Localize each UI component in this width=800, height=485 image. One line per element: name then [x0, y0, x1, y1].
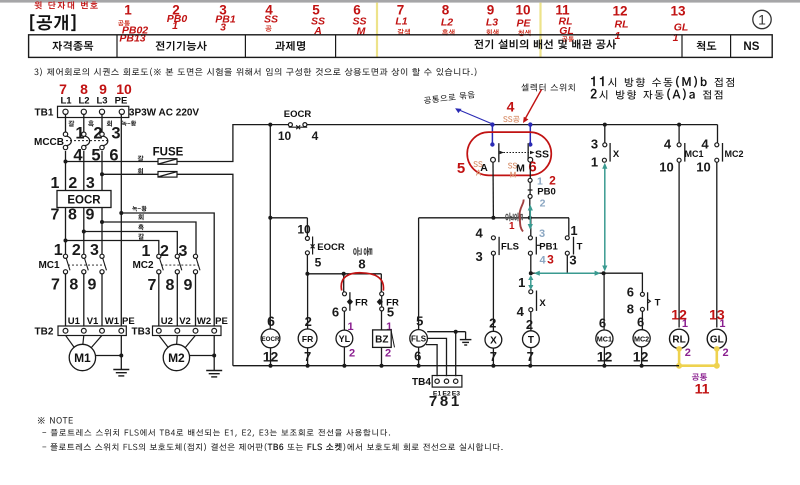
svg-text:2: 2 [72, 242, 81, 259]
wire SS-A to rung [492, 162, 494, 218]
buzzer BZ [373, 330, 395, 348]
red numbers 7 8 9 10 above TB1 [59, 81, 132, 97]
svg-text:2: 2 [540, 198, 546, 210]
svg-text:3: 3 [179, 243, 188, 260]
svg-text:M: M [357, 26, 366, 38]
svg-text:MC2: MC2 [634, 334, 649, 343]
table cell 전기 설비의 배선 및 배관 공사 [474, 39, 616, 49]
svg-text:8: 8 [68, 207, 77, 224]
svg-text:1: 1 [509, 221, 515, 232]
svg-text:9: 9 [88, 277, 97, 294]
wire color labels under TB1 [68, 120, 136, 126]
relay contact X aux (3/1) top right [602, 143, 619, 162]
svg-text:1: 1 [451, 393, 459, 410]
svg-text:13: 13 [670, 4, 686, 19]
svg-text:V1: V1 [87, 316, 99, 327]
handwritten 7 8 9 below EOCR [51, 207, 95, 224]
wire W phase EOCR to MC1 with branch node [101, 208, 103, 255]
svg-text:5: 5 [457, 160, 465, 177]
svg-text:TB3: TB3 [132, 327, 151, 338]
svg-text:PE: PE [516, 18, 531, 30]
fuse F2 [102, 168, 177, 177]
selector switch SS levers and contacts [491, 143, 549, 162]
svg-text:9: 9 [184, 277, 193, 294]
relay coil MC2 [633, 330, 650, 347]
wire rung corner to T contact [568, 218, 570, 236]
svg-text:4: 4 [517, 304, 525, 319]
contact MC1 aux (4/10) [677, 143, 703, 162]
svg-text:MC2: MC2 [724, 149, 743, 159]
svg-text:L3: L3 [486, 17, 498, 29]
svg-text:4: 4 [475, 226, 483, 241]
svg-text:1: 1 [673, 32, 679, 44]
wire V phase EOCR to MC1 with branch node [83, 208, 85, 255]
svg-text:W2: W2 [197, 316, 211, 327]
wire L3 MCCB to EOCR with fuse branch node [101, 151, 103, 191]
svg-text:2: 2 [685, 347, 691, 359]
node top rail left [268, 123, 272, 127]
svg-text:7: 7 [429, 393, 437, 410]
red terminal column number 8 [441, 3, 455, 36]
red terminal column number 3 [215, 3, 236, 34]
timer coil T [523, 331, 540, 348]
svg-text:1: 1 [75, 125, 84, 143]
teal annotation wire X aux down [602, 163, 607, 272]
wire rung to FLS coil branch [418, 218, 420, 330]
wire EOCR coil to rail [270, 348, 272, 366]
svg-text:2: 2 [93, 125, 102, 143]
wire GL to rail yellow [715, 348, 718, 365]
svg-text:MCCB: MCCB [34, 137, 64, 148]
note line 1 [42, 429, 390, 437]
svg-text:M2: M2 [168, 351, 185, 365]
svg-text:PB0: PB0 [537, 187, 555, 198]
svg-text:10: 10 [659, 160, 673, 175]
relay coil X [485, 331, 502, 348]
svg-text:3: 3 [86, 175, 95, 192]
wires MC2 to TB3 [159, 274, 196, 326]
label brown wire [138, 234, 144, 240]
label green-yellow wire [132, 206, 147, 211]
wire rung3 branch to T contact 6/8 [604, 273, 642, 292]
handwritten 1 2 3 above EOCR [51, 175, 95, 192]
svg-text:8: 8 [69, 277, 78, 294]
wire L2 TB1 to MCCB [83, 114, 85, 131]
lamp YL [336, 330, 353, 347]
wire fuse1 to control rail top [177, 125, 270, 162]
svg-text:TB4: TB4 [412, 377, 431, 388]
lamp GL [707, 329, 726, 348]
svg-text:TB1: TB1 [35, 108, 54, 119]
svg-text:3: 3 [539, 228, 545, 240]
wire FLS coil to rail [418, 347, 420, 366]
svg-text:4: 4 [312, 129, 319, 143]
node X aux on top rail [603, 123, 607, 127]
handwritten numbers 4 5 6 on MCCB [73, 147, 118, 165]
flicker contact FR-a for YL [342, 292, 368, 311]
svg-text:TB2: TB2 [35, 327, 54, 338]
svg-text:1: 1 [537, 176, 543, 188]
wire rail to X aux [604, 125, 606, 143]
handwritten 7 8 9 below MC2 [148, 277, 193, 294]
svg-text:1: 1 [682, 318, 688, 330]
svg-text:10: 10 [278, 129, 292, 143]
wire rung3 to MC1 coil [603, 273, 605, 330]
svg-text:MC1: MC1 [38, 260, 60, 271]
node fuse2 tap [100, 172, 104, 176]
wire FR coil to rail [307, 348, 309, 366]
svg-text:PE: PE [122, 316, 135, 327]
pushbutton PB0 (NC) [528, 178, 556, 198]
svg-text:2: 2 [526, 317, 533, 332]
handwritten 7 8 1 below TB4 [429, 393, 459, 410]
wire RL to rail yellow [678, 348, 681, 365]
handwritten 1 2 3 above MC2 [142, 243, 188, 260]
wire PB0 to rung [529, 198, 531, 217]
fuse F1 [66, 147, 184, 165]
wire T coil to rail [530, 348, 532, 366]
bottom rail yellow common segment [679, 364, 717, 367]
red terminal column number 1 [118, 3, 148, 45]
contactor MC2 main contacts [132, 254, 200, 274]
svg-text:1: 1 [54, 242, 63, 259]
relay contact X (1/4) to T coil [529, 290, 547, 312]
svg-text:EOCR: EOCR [67, 195, 101, 207]
wire MC1 coil to rail [603, 347, 605, 366]
wire PE TB1 down [120, 114, 122, 326]
wire fuse2 to control rail bottom [177, 174, 233, 365]
svg-text:L3: L3 [96, 96, 107, 107]
node top rail MC1 aux [677, 123, 681, 127]
wire to YL lamp [343, 311, 345, 330]
red terminal column number 4 [264, 3, 278, 32]
wire MC2 aux to GL lamp [716, 162, 718, 327]
rotated 공통 label YL-BZ [353, 247, 372, 256]
teal annotation arrow rung3 [534, 271, 601, 276]
svg-text:10: 10 [297, 223, 311, 237]
svg-text:T: T [528, 335, 534, 346]
contactor MC1 main contacts [38, 254, 106, 274]
pins 4/3 below PB1 [539, 253, 554, 267]
svg-text:1: 1 [591, 155, 598, 170]
svg-text:L1: L1 [395, 16, 407, 28]
blue arrow to common note [455, 108, 491, 123]
wire YL branch upper [343, 274, 345, 292]
red oval around SS [467, 132, 551, 175]
svg-text:SS: SS [264, 14, 278, 26]
svg-text:2: 2 [385, 348, 391, 360]
svg-text:X: X [613, 149, 620, 160]
table cell 자격종목 [52, 41, 93, 51]
svg-text:3: 3 [111, 125, 120, 143]
control rung 3 [531, 272, 604, 274]
wire top rail corner to MC2 aux [717, 125, 719, 143]
svg-text:2: 2 [160, 243, 169, 260]
terminal block TB2 [35, 316, 135, 338]
wire T contact to MC2 coil [641, 311, 643, 330]
wire gray branch to MC2 [102, 222, 196, 254]
svg-text:8: 8 [440, 393, 448, 410]
wire PB1 bottom to junction [530, 255, 532, 274]
svg-text:M: M [516, 163, 525, 175]
svg-text:L2: L2 [78, 96, 89, 107]
svg-text:1: 1 [719, 318, 725, 330]
svg-text:SS: SS [535, 149, 549, 161]
wire EOCR-b to YL/BZ rung [306, 255, 308, 274]
wire X coil to rail [492, 348, 494, 366]
page number circle 1 [753, 10, 771, 28]
svg-text:2: 2 [68, 175, 77, 192]
svg-text:2: 2 [349, 348, 355, 360]
label black wire [138, 224, 144, 230]
svg-text:3: 3 [90, 242, 99, 259]
svg-text:4: 4 [664, 137, 672, 152]
svg-text:2: 2 [305, 314, 312, 329]
svg-text:11: 11 [695, 381, 710, 397]
svg-text:NS: NS [743, 41, 759, 53]
svg-text:5: 5 [315, 256, 322, 270]
svg-text:X: X [539, 298, 546, 309]
svg-text:3: 3 [547, 253, 554, 267]
table cell 과제명 [275, 41, 305, 51]
svg-text:M1: M1 [74, 351, 91, 365]
wire MC1 aux to RL lamp [678, 162, 680, 327]
label upper-terminal-numbers title (red) [35, 1, 98, 9]
terminal block TB4 [412, 376, 462, 398]
wire L1 MCCB to EOCR with fuse branch node [65, 151, 67, 191]
note header [38, 417, 73, 424]
svg-text:1: 1 [172, 20, 178, 32]
red terminal column number 6 [352, 3, 366, 38]
motor M1 [66, 335, 103, 370]
svg-text:5: 5 [416, 314, 423, 329]
svg-text:8: 8 [166, 277, 175, 294]
relay contact EOCR-b (10/5) [305, 236, 344, 254]
note line 2 [42, 443, 502, 451]
rotated 공통 label near PB0 [505, 213, 523, 222]
control rung 2 [419, 217, 569, 219]
wire L1 TB1 to MCCB [65, 114, 67, 131]
svg-text:4: 4 [507, 99, 515, 115]
grey top border bar [0, 0, 800, 3]
orange SS공 label [503, 116, 519, 123]
svg-text:1: 1 [570, 223, 577, 238]
svg-text:8: 8 [358, 257, 365, 272]
node fuse1 tap [64, 160, 68, 164]
svg-text:9: 9 [86, 207, 95, 224]
relay EOCR coil [261, 329, 280, 348]
bottom control rail [233, 365, 679, 367]
svg-text:U1: U1 [68, 316, 81, 327]
wire FR coil top [307, 274, 309, 329]
wire rail to MC1 aux [678, 125, 680, 143]
table cell 척도 [697, 41, 717, 51]
svg-text:6: 6 [528, 159, 536, 176]
svg-text:4: 4 [701, 137, 709, 152]
svg-text:FUSE: FUSE [153, 147, 184, 159]
red brace [520, 200, 524, 232]
svg-text:2: 2 [549, 174, 556, 188]
float switch contact FLS (4/3) [491, 236, 519, 255]
wires MC1 to TB2 [66, 274, 103, 326]
wire L2 MCCB to EOCR [83, 151, 85, 191]
svg-text:8: 8 [627, 302, 634, 317]
handwritten 7 8 9 below MC1 [51, 277, 97, 294]
red terminal column number 13 [670, 4, 688, 45]
handwritten numbers 1 2 3 on MCCB [75, 125, 120, 143]
svg-text:5: 5 [387, 305, 394, 320]
orange SS M labels and black M [508, 163, 525, 178]
label gray wire [138, 214, 143, 220]
red terminal column number 11 [555, 3, 574, 43]
svg-text:1: 1 [51, 175, 60, 192]
svg-text:1: 1 [758, 12, 766, 28]
table cell 전기기능사 [155, 41, 206, 51]
teal annotation arrow PB0 to rung [528, 205, 533, 231]
svg-text:6: 6 [267, 313, 275, 329]
svg-text:W1: W1 [105, 316, 120, 327]
svg-text:3P3W AC 220V: 3P3W AC 220V [129, 108, 200, 119]
svg-text:YL: YL [339, 334, 351, 344]
svg-text:4: 4 [539, 255, 546, 267]
svg-text:6: 6 [637, 315, 644, 330]
svg-text:2: 2 [489, 316, 496, 331]
red common jumper arc YL-BZ [341, 273, 383, 291]
node left rail branch [268, 216, 272, 220]
ground for M1/TB2 PE [96, 335, 130, 376]
svg-text:PE: PE [215, 316, 228, 327]
svg-text:RL: RL [672, 335, 685, 346]
svg-text:A: A [480, 162, 488, 174]
svg-text:EOCR: EOCR [317, 242, 345, 253]
svg-text:10: 10 [515, 3, 530, 18]
svg-text:3: 3 [220, 22, 226, 34]
wire X contact to T coil [530, 312, 532, 332]
svg-text:3: 3 [591, 137, 598, 152]
FLS wire E3 to ground and TB4 [427, 330, 471, 377]
wire PE branch to TB3 [121, 213, 214, 326]
svg-text:L2: L2 [441, 17, 453, 29]
svg-text:9: 9 [487, 3, 495, 18]
svg-text:1: 1 [518, 275, 525, 290]
red arrow from selector label to SS [523, 90, 542, 124]
svg-text:L1: L1 [60, 96, 72, 107]
FLS wire E1 to TB4 [426, 345, 437, 377]
wire rung to YL and BZ branches [307, 273, 381, 275]
red terminal column number 9 [486, 3, 499, 36]
svg-text:2: 2 [723, 347, 729, 359]
svg-text:1: 1 [124, 3, 132, 18]
svg-text:PE: PE [115, 96, 128, 107]
svg-text:T: T [655, 298, 661, 309]
red terminal column number 10 [515, 3, 531, 37]
title [공개] [30, 14, 75, 31]
svg-text:7: 7 [148, 277, 157, 294]
svg-text:BZ: BZ [375, 335, 388, 346]
svg-text:7: 7 [51, 207, 60, 224]
purple 공통 label [692, 373, 707, 380]
svg-text:MC1: MC1 [597, 335, 612, 344]
svg-text:3: 3 [475, 249, 482, 264]
svg-text:PB1: PB1 [539, 242, 558, 253]
svg-text:1: 1 [142, 243, 151, 260]
svg-text:7: 7 [51, 277, 60, 294]
red terminal column number 5 [311, 3, 325, 38]
svg-text:12: 12 [612, 4, 627, 19]
selector switch SS blue common wires [490, 122, 532, 146]
svg-text:6: 6 [599, 316, 606, 331]
control top rail [270, 124, 290, 126]
svg-text:EOCR: EOCR [262, 336, 280, 343]
relay EOCR main block [57, 191, 111, 208]
svg-text:6: 6 [627, 285, 634, 300]
svg-text:6: 6 [332, 305, 339, 320]
timer contact T (1/3) [565, 236, 582, 255]
svg-text:MC2: MC2 [132, 260, 154, 271]
yellow fold line left [376, 3, 378, 58]
ground for M2/TB3 PE [190, 335, 222, 377]
circuit breaker MCCB [34, 132, 109, 150]
orange SS A labels and black A [473, 161, 488, 175]
svg-text:RL: RL [615, 19, 629, 31]
red terminal column number 12 [612, 4, 628, 43]
left control rail vertical [269, 125, 271, 330]
svg-text:X: X [490, 336, 497, 347]
annotation selector 2 oclock auto [591, 88, 723, 100]
svg-text:8: 8 [442, 3, 450, 18]
svg-text:FLS: FLS [501, 242, 519, 253]
svg-text:12: 12 [633, 349, 649, 365]
wire MC2 coil to rail [641, 347, 643, 366]
relay coil MC1 [596, 330, 613, 347]
wire YL to bottom rail [343, 347, 345, 366]
subtitle line 3) control circuit sequence diagram [34, 68, 476, 77]
contact MC2 aux (4/10) [715, 143, 744, 162]
wire BZ branch upper [380, 274, 382, 292]
red terminal column number 7 [395, 3, 410, 36]
svg-text:10: 10 [696, 160, 710, 175]
svg-text:V2: V2 [179, 316, 191, 327]
wire brown branch to MC2 [66, 241, 159, 255]
relay FR coil [298, 329, 317, 348]
svg-text:U2: U2 [161, 316, 173, 327]
svg-text:1: 1 [615, 30, 621, 42]
annotation selector 11 oclock manual [591, 76, 734, 88]
FLS wire E2 to TB4 [427, 338, 446, 376]
svg-text:FLS: FLS [411, 335, 427, 344]
terminal block TB3 [132, 316, 228, 338]
wire black branch to MC2 [84, 232, 178, 255]
annotation 셀렉터 스위치 [521, 84, 574, 92]
svg-text:GL: GL [710, 335, 724, 346]
header table frame [29, 35, 773, 58]
annotation 공통으로 묶음 [424, 91, 475, 104]
wire U phase EOCR to MC1 with branch node [65, 208, 67, 255]
wire FLS contact down to X coil [492, 255, 494, 332]
teal annotation arrow junction to X contact [528, 275, 533, 290]
motor M2 [159, 335, 196, 370]
handwritten 1 2 3 above MC1 [54, 242, 99, 259]
lamp RL [670, 329, 689, 348]
svg-text:6: 6 [414, 349, 421, 364]
overload relay contact EOCR-b on top rail [284, 109, 312, 129]
rung to EOCR coil branch [270, 217, 307, 219]
wire SS-M to PB0 [529, 162, 531, 178]
svg-text:T: T [577, 242, 583, 253]
wire EOCR-b contact branch vertical [306, 218, 308, 236]
wire BZ to bottom rail [381, 347, 383, 365]
timer contact T (6/8) [640, 292, 660, 311]
